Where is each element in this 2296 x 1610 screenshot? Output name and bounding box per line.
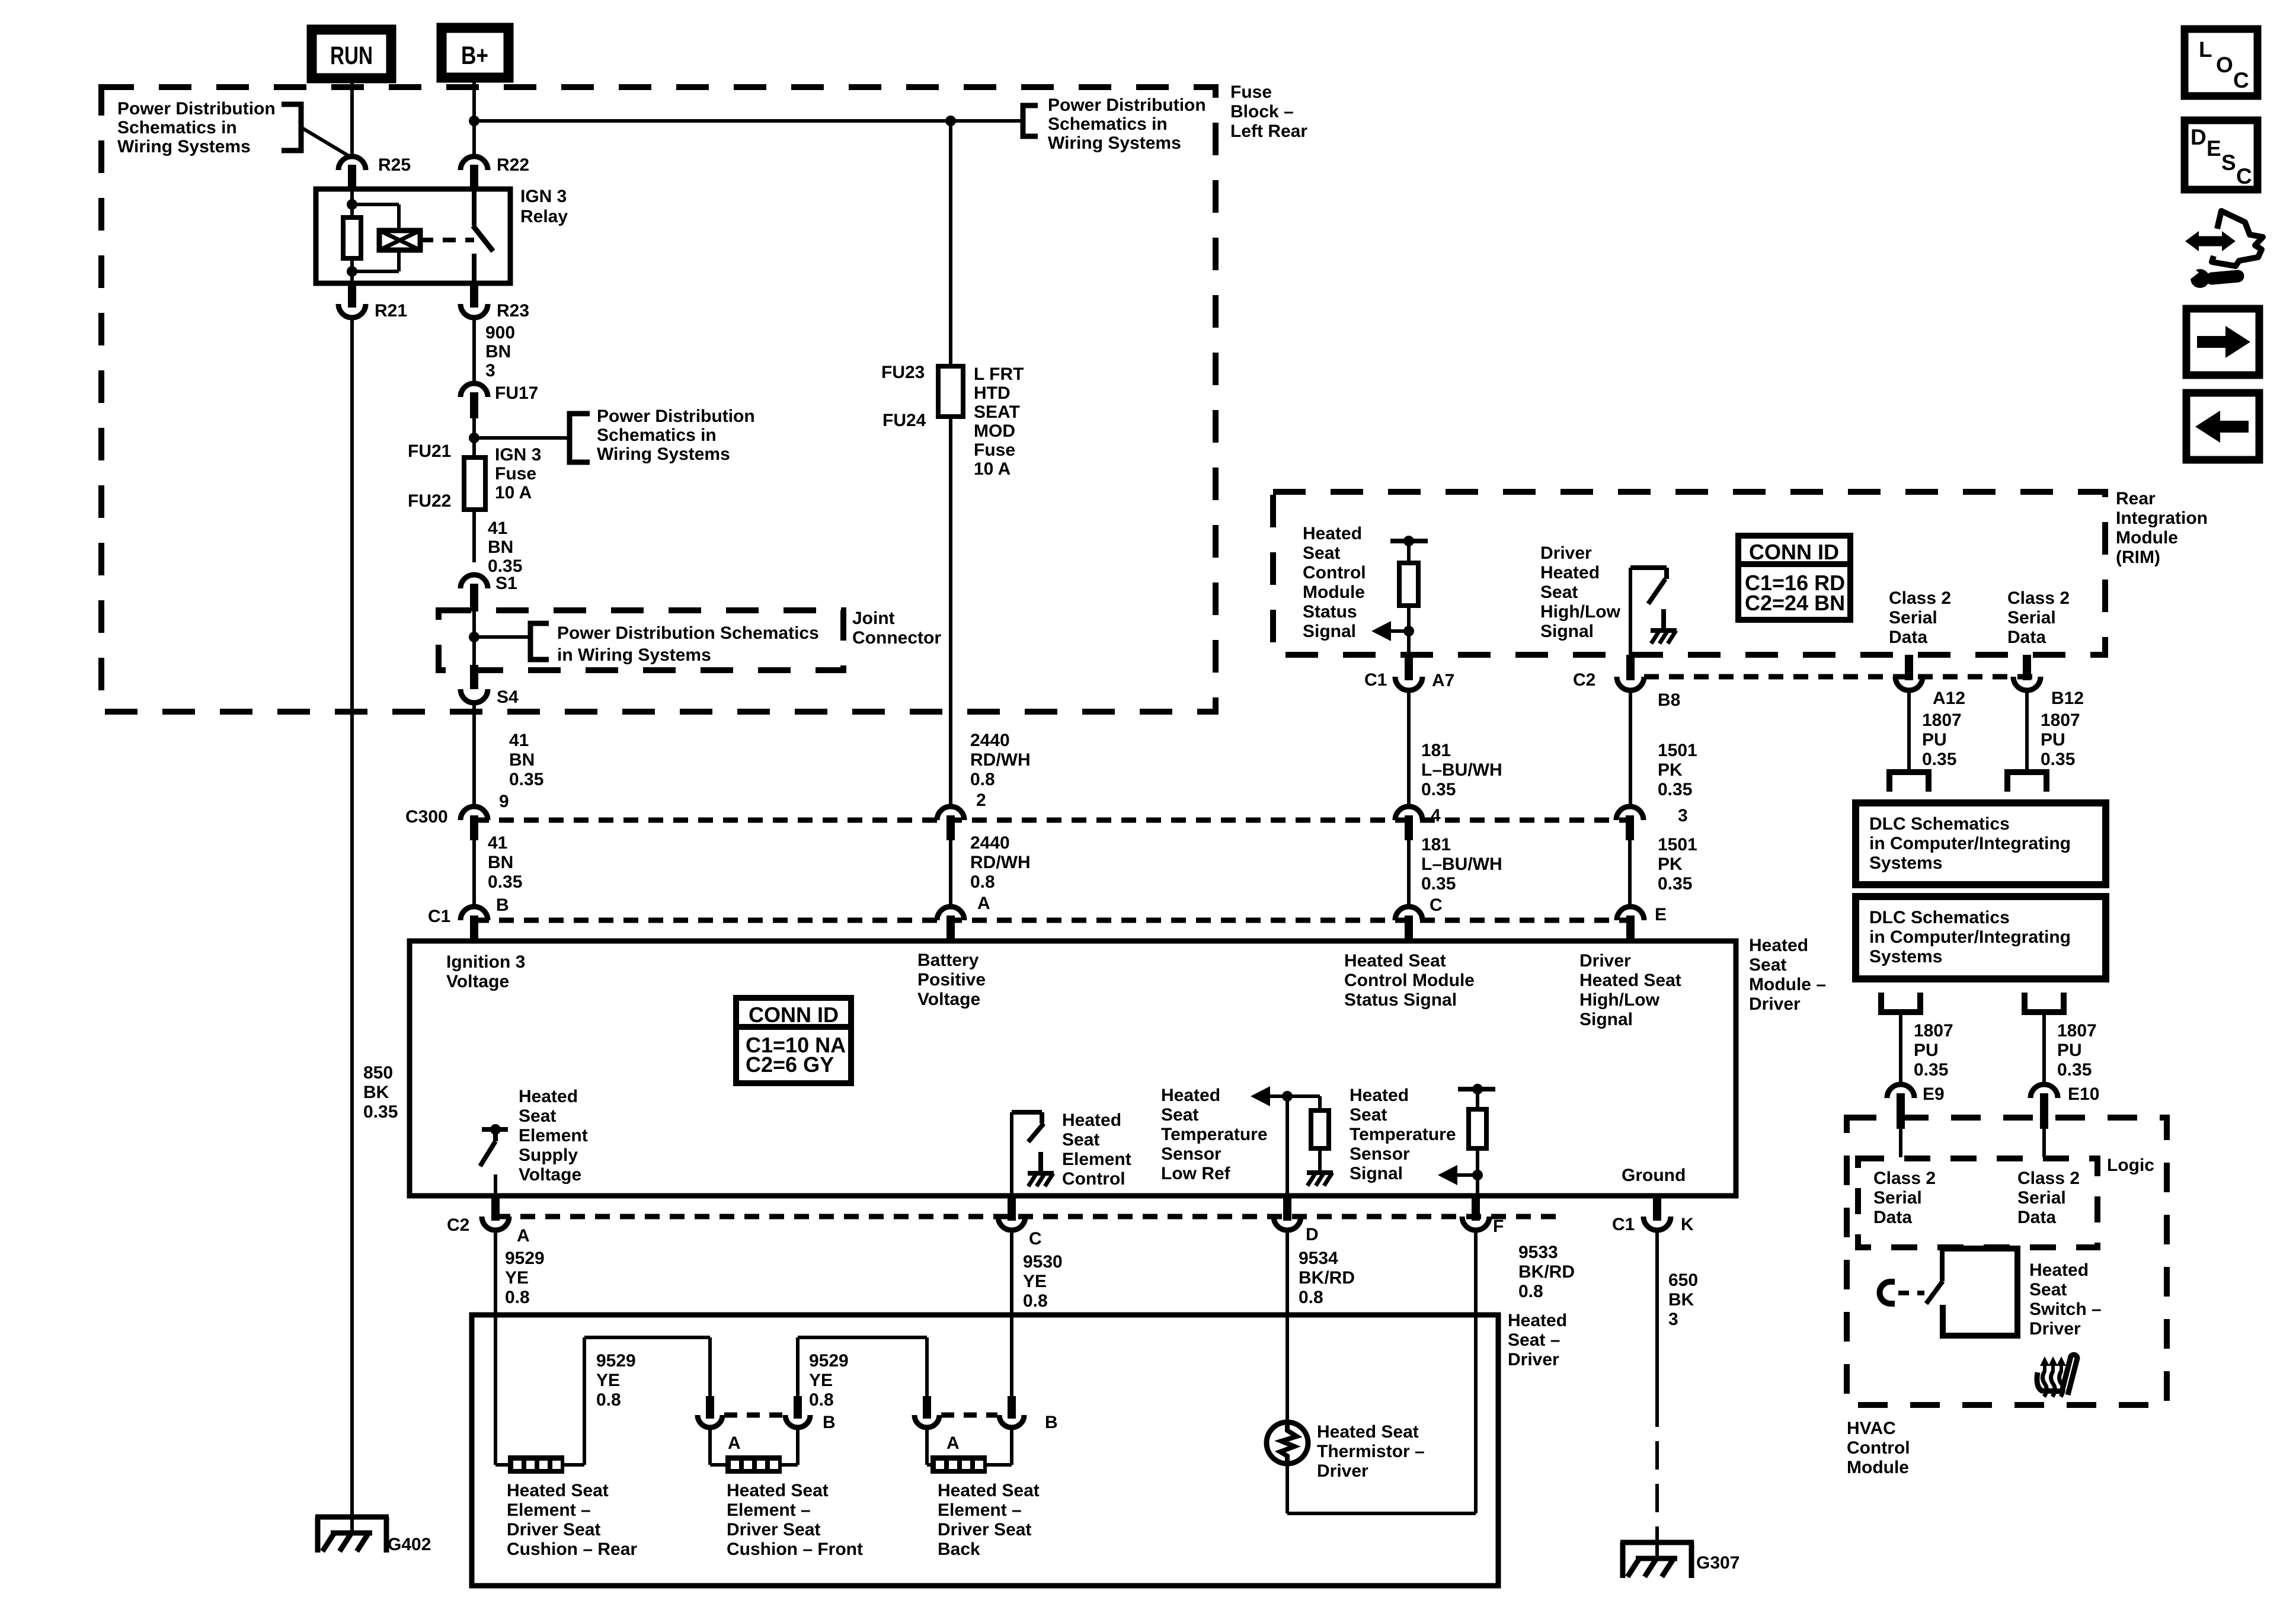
svg-text:9530: 9530 (1023, 1252, 1063, 1272)
svg-text:Heated: Heated (2029, 1260, 2089, 1280)
svg-text:Element –: Element – (938, 1500, 1022, 1520)
svg-text:PK: PK (1658, 760, 1683, 780)
logic dashed box (1858, 1158, 2097, 1247)
svg-text:10 A: 10 A (974, 459, 1011, 479)
connector R21 (338, 304, 366, 318)
svg-text:BN: BN (509, 750, 535, 770)
connector C1 pin at x=800 (461, 907, 488, 920)
wire element front B up and over to pair 2 (796, 1337, 800, 1415)
svg-text:0.8: 0.8 (596, 1390, 621, 1410)
svg-text:Sensor: Sensor (1350, 1144, 1410, 1164)
svg-text:D: D (2191, 125, 2207, 149)
wire pin C to element control (1010, 1112, 1013, 1196)
svg-text:Positive: Positive (917, 970, 986, 990)
svg-text:O: O (2216, 53, 2233, 77)
svg-text:Connector: Connector (852, 628, 941, 648)
svg-text:Heated: Heated (1540, 563, 1600, 582)
reference staple (E10) (2025, 993, 2064, 1012)
svg-text:Heated Seat: Heated Seat (507, 1481, 609, 1500)
svg-text:Class 2: Class 2 (2017, 1169, 2080, 1188)
svg-text:0.35: 0.35 (2057, 1060, 2092, 1080)
reference staple (E9) (1881, 993, 1920, 1012)
svg-text:0.8: 0.8 (970, 770, 995, 789)
svg-text:R25: R25 (378, 155, 411, 175)
svg-text:9534: 9534 (1299, 1249, 1338, 1268)
svg-text:41: 41 (509, 731, 529, 750)
node joint connector junction (469, 632, 479, 642)
wire S4 to C300 (472, 702, 476, 807)
connector C1 pin at x=2377 (1395, 907, 1422, 920)
wire inside joint connector (472, 612, 476, 668)
reference bracket (top left) (282, 104, 301, 151)
box DLC Schematics 1 (1856, 803, 2106, 885)
svg-text:G402: G402 (388, 1535, 431, 1554)
svg-text:3: 3 (1668, 1310, 1678, 1329)
wire pin C down to connector B (1010, 1230, 1013, 1396)
svg-text:Control: Control (1062, 1169, 1125, 1189)
svg-text:E9: E9 (1923, 1084, 1945, 1104)
reference bracket (power distribution, top right) (1023, 105, 1038, 136)
wire fuse to S1 (472, 510, 476, 562)
svg-text:Module: Module (1303, 582, 1365, 602)
svg-text:Control Module: Control Module (1344, 971, 1475, 990)
wire C300 to C1 (41 BN) (472, 840, 476, 908)
svg-text:9: 9 (499, 792, 509, 811)
svg-text:Integration: Integration (2116, 508, 2208, 528)
wire B8 to C300 (1501) (1629, 690, 1632, 807)
svg-text:Status: Status (1303, 602, 1357, 622)
svg-text:in Computer/Integrating: in Computer/Integrating (1869, 834, 2071, 853)
svg-text:0.8: 0.8 (1023, 1291, 1048, 1311)
svg-text:FU24: FU24 (882, 411, 926, 430)
svg-text:BN: BN (485, 342, 511, 361)
connector C2 pin C (1008, 1197, 1016, 1221)
svg-text:Data: Data (2017, 1208, 2056, 1227)
svg-text:PK: PK (1658, 854, 1683, 874)
svg-text:Ground: Ground (1622, 1166, 1686, 1185)
svg-text:1807: 1807 (1922, 710, 1962, 730)
svg-text:YE: YE (1023, 1272, 1047, 1291)
svg-text:F: F (1493, 1217, 1504, 1236)
svg-text:Power Distribution: Power Distribution (1048, 95, 1206, 115)
svg-text:Driver Seat: Driver Seat (727, 1520, 820, 1539)
svg-text:Module –: Module – (1749, 975, 1826, 994)
connector C1 pin K (1653, 1197, 1661, 1221)
svg-text:Seat: Seat (519, 1106, 556, 1126)
svg-text:RD/WH: RD/WH (970, 853, 1031, 872)
svg-text:IGN 3: IGN 3 (495, 445, 541, 465)
svg-text:C2: C2 (1573, 670, 1595, 690)
svg-text:Logic: Logic (2107, 1156, 2154, 1175)
svg-text:High/Low: High/Low (1579, 990, 1660, 1010)
svg-text:0.35: 0.35 (1658, 780, 1692, 799)
wire pin D to thermistor (1285, 1230, 1289, 1422)
svg-text:0.8: 0.8 (809, 1390, 834, 1410)
svg-text:C1: C1 (428, 907, 450, 926)
svg-text:Wiring Systems: Wiring Systems (1048, 133, 1181, 153)
connector C2 pin F (1472, 1197, 1480, 1221)
connector B (pair 2) (1008, 1396, 1016, 1419)
svg-text:Seat: Seat (1303, 543, 1340, 563)
node FU17 junction (469, 433, 479, 443)
wire thermistor bottom (1285, 1464, 1289, 1513)
svg-text:Serial: Serial (2017, 1188, 2066, 1208)
svg-text:C: C (2236, 164, 2252, 188)
svg-text:FU22: FU22 (408, 491, 451, 511)
svg-text:C2=6 GY: C2=6 GY (746, 1052, 834, 1077)
svg-text:Signal: Signal (1579, 1010, 1633, 1029)
wire A12 to DLC reference (1907, 690, 1911, 772)
svg-text:Element –: Element – (727, 1500, 811, 1520)
svg-text:0.35: 0.35 (488, 872, 522, 892)
svg-text:Schematics in: Schematics in (117, 118, 237, 137)
svg-text:0.35: 0.35 (2041, 750, 2075, 769)
wire E10 into HVAC (2042, 1129, 2046, 1157)
conn id box (RIM) (1738, 536, 1850, 620)
relay IGN 3 box (316, 189, 510, 283)
connector C300 pin 3 (1616, 806, 1643, 820)
wire B+ branch to FU23 (474, 119, 951, 123)
connector C300 pin 4 (1395, 806, 1422, 820)
connector B12 (2023, 655, 2031, 680)
svg-text:Block –: Block – (1230, 102, 1294, 121)
svg-text:Signal: Signal (1540, 622, 1594, 641)
svg-text:Back: Back (938, 1539, 980, 1559)
ground (element control) (1038, 1152, 1043, 1173)
svg-text:Thermistor –: Thermistor – (1317, 1442, 1425, 1461)
connector E10 (2030, 1084, 2058, 1098)
svg-text:181: 181 (1421, 741, 1451, 760)
svg-text:A7: A7 (1432, 671, 1454, 690)
svg-text:A: A (977, 894, 990, 913)
in-line connector dashed link (pair 2) (941, 1413, 997, 1418)
svg-text:10 A: 10 A (495, 483, 532, 502)
svg-text:Schematics in: Schematics in (597, 425, 717, 445)
connector C1 pin at x=1604 (937, 907, 964, 920)
wire pin D up (1285, 1096, 1289, 1196)
switch momentary contact curl (1880, 1282, 1895, 1304)
svg-text:Rear: Rear (2116, 489, 2156, 508)
svg-text:Control: Control (1847, 1438, 1910, 1458)
ground G307 (1620, 1540, 1694, 1545)
svg-text:L–BU/WH: L–BU/WH (1421, 760, 1502, 780)
svg-text:Status Signal: Status Signal (1344, 990, 1457, 1010)
svg-text:Class 2: Class 2 (2007, 588, 2070, 608)
svg-text:9529: 9529 (596, 1351, 636, 1371)
svg-text:Joint: Joint (852, 609, 895, 628)
svg-text:Voltage: Voltage (917, 990, 980, 1009)
svg-text:SEAT: SEAT (974, 402, 1020, 422)
svg-text:PU: PU (2057, 1041, 2082, 1060)
icon DESC box (2185, 120, 2257, 190)
icon right arrow box (2186, 309, 2259, 375)
svg-text:Heated: Heated (1062, 1110, 1121, 1130)
svg-text:Heated: Heated (1749, 936, 1808, 955)
svg-text:0.8: 0.8 (1518, 1282, 1543, 1301)
heated seat temperature sensor signal branch (1458, 1087, 1495, 1092)
svg-text:2440: 2440 (970, 833, 1010, 853)
wire pin A to element rear (494, 1230, 497, 1465)
connector E9 (1887, 1084, 1914, 1098)
svg-text:Sensor: Sensor (1161, 1144, 1221, 1164)
connector C2 B8 (1626, 655, 1635, 680)
terminal RUN (312, 30, 391, 78)
conn id box (module) (736, 998, 851, 1083)
ground (RIM switch) (1661, 609, 1666, 630)
svg-text:Fuse: Fuse (1230, 82, 1272, 102)
svg-text:L: L (2199, 37, 2212, 62)
svg-text:BK/RD: BK/RD (1299, 1268, 1355, 1288)
svg-text:Temperature: Temperature (1350, 1125, 1456, 1144)
svg-text:Heated: Heated (1303, 524, 1362, 543)
wire B12 to DLC reference (2025, 690, 2029, 772)
svg-text:A: A (517, 1226, 530, 1246)
svg-text:1501: 1501 (1658, 741, 1697, 760)
reference staple (A12) (1889, 772, 1929, 792)
svg-text:0.35: 0.35 (1914, 1060, 1948, 1080)
svg-text:Signal: Signal (1303, 622, 1356, 641)
connector A (pair 1) (706, 1396, 714, 1419)
wire thermistor return bottom (1287, 1512, 1476, 1515)
svg-text:Driver Seat: Driver Seat (938, 1520, 1031, 1539)
svg-text:Serial: Serial (1889, 608, 1937, 628)
svg-text:(RIM): (RIM) (2116, 548, 2160, 567)
svg-text:YE: YE (596, 1371, 620, 1390)
svg-text:DLC Schematics: DLC Schematics (1869, 814, 2010, 834)
svg-text:Seat: Seat (1749, 955, 1786, 975)
svg-text:Heated: Heated (1508, 1311, 1567, 1330)
svg-text:Heated: Heated (1161, 1086, 1220, 1105)
svg-text:C1: C1 (1364, 670, 1387, 690)
svg-text:0.35: 0.35 (1421, 780, 1456, 799)
svg-text:Wiring Systems: Wiring Systems (597, 444, 730, 464)
svg-text:B12: B12 (2051, 689, 2084, 708)
wire FU17 to fuse IGN3 (472, 418, 476, 457)
svg-text:DLC Schematics: DLC Schematics (1869, 908, 2010, 927)
wire A7 to C300 (181) (1407, 690, 1411, 807)
svg-text:Serial: Serial (2007, 608, 2056, 628)
svg-text:YE: YE (505, 1268, 529, 1288)
svg-text:Systems: Systems (1869, 947, 1942, 966)
module rear integration module dashed box (1273, 492, 2105, 655)
svg-text:RUN: RUN (330, 41, 373, 70)
switch fixed contact from logic (1940, 1249, 1945, 1281)
svg-text:L FRT: L FRT (974, 364, 1024, 384)
relay coil (box with X) (352, 203, 399, 206)
svg-text:0.8: 0.8 (1299, 1288, 1323, 1307)
svg-text:B8: B8 (1658, 690, 1680, 710)
node relay coil bottom (347, 266, 357, 277)
svg-text:CONN ID: CONN ID (749, 1003, 839, 1027)
svg-text:Cushion – Front: Cushion – Front (727, 1539, 863, 1559)
svg-text:Systems: Systems (1869, 853, 1942, 873)
svg-text:S4: S4 (497, 687, 519, 707)
connector A12 (1905, 655, 1913, 680)
svg-text:0.8: 0.8 (505, 1288, 530, 1307)
svg-text:Fuse: Fuse (974, 440, 1015, 460)
connector C2 pin A (491, 1197, 500, 1221)
wire C300 to C1 (181) (1407, 840, 1411, 908)
svg-text:Power Distribution Schematics: Power Distribution Schematics (557, 623, 819, 643)
wire B+ branch down to FU23 (949, 121, 952, 366)
svg-text:Serial: Serial (1873, 1188, 1922, 1208)
svg-text:YE: YE (809, 1371, 833, 1390)
svg-text:9533: 9533 (1518, 1243, 1558, 1262)
pointer line to R25 (301, 127, 350, 156)
wire element rear to connector A (584, 1336, 710, 1339)
svg-text:0.35: 0.35 (363, 1102, 398, 1122)
connector line C1 (module top) (474, 918, 1630, 923)
RIM status signal resistor branch (1390, 539, 1428, 543)
relay coil resistor (350, 189, 354, 217)
wire switch to pin A (494, 1174, 497, 1196)
svg-text:9529: 9529 (505, 1249, 545, 1268)
svg-text:C2=24 BN: C2=24 BN (1745, 591, 1845, 615)
relay switch (472, 189, 477, 226)
wire RUN to R25 (350, 78, 354, 157)
connector R25 (338, 156, 366, 170)
wire R23 to FU17 (472, 317, 476, 385)
svg-text:E10: E10 (2068, 1084, 2099, 1104)
svg-text:4: 4 (1431, 806, 1441, 825)
node B+ junction (469, 116, 479, 126)
svg-text:Low Ref: Low Ref (1161, 1164, 1231, 1183)
relay actuator dashed link (420, 238, 474, 242)
svg-text:FU17: FU17 (495, 383, 538, 403)
wire pin K stub (1655, 1196, 1659, 1197)
svg-text:HVAC: HVAC (1847, 1419, 1896, 1438)
svg-text:C1: C1 (1612, 1215, 1635, 1234)
svg-text:Heated: Heated (1350, 1086, 1409, 1105)
svg-text:Element: Element (1062, 1150, 1131, 1169)
wire pin K down (solid) (1655, 1230, 1659, 1398)
svg-text:C: C (1029, 1229, 1042, 1249)
svg-text:Temperature: Temperature (1161, 1125, 1268, 1144)
svg-text:Driver: Driver (1579, 951, 1631, 971)
svg-text:MOD: MOD (974, 421, 1015, 441)
svg-text:L–BU/WH: L–BU/WH (1421, 854, 1502, 874)
connector R23 (461, 304, 488, 318)
connector S1 (461, 575, 488, 588)
svg-text:Module: Module (1847, 1458, 1909, 1477)
svg-text:C300: C300 (405, 807, 448, 827)
svg-text:CONN ID: CONN ID (1749, 540, 1839, 564)
svg-text:BK: BK (1668, 1290, 1694, 1310)
svg-text:Data: Data (2007, 628, 2046, 647)
ground G402 (315, 1515, 389, 1520)
svg-text:Supply: Supply (519, 1145, 578, 1165)
wire DLC to E9 (1899, 1012, 1902, 1084)
switch box outline (1942, 1249, 2017, 1336)
svg-text:High/Low: High/Low (1540, 602, 1621, 622)
icon heated seat (2037, 1355, 2077, 1397)
svg-text:R23: R23 (497, 301, 529, 321)
heated seat element driver seat cushion front (708, 1427, 712, 1465)
svg-text:Heated Seat: Heated Seat (1579, 971, 1681, 990)
wire stub into G307 (1655, 1538, 1659, 1558)
reference bracket (joint connector) (530, 623, 549, 660)
connector C300 pin 2 (937, 806, 964, 820)
svg-text:1807: 1807 (2041, 710, 2080, 730)
wire B8 up to switch (1629, 568, 1632, 655)
svg-text:G307: G307 (1696, 1553, 1739, 1573)
icon car with arrow and wrench (2185, 211, 2263, 279)
module HVAC control module dashed box (1847, 1118, 2167, 1405)
svg-text:2440: 2440 (970, 731, 1010, 750)
box DLC Schematics 2 (1856, 897, 2106, 979)
wire C300 to C1 (1501) (1628, 840, 1632, 908)
svg-text:D: D (1306, 1225, 1319, 1244)
svg-text:Driver: Driver (1540, 543, 1592, 563)
thermistor heated seat driver (1267, 1422, 1308, 1464)
svg-text:Schematics in: Schematics in (1048, 114, 1168, 134)
svg-text:Seat: Seat (1540, 582, 1578, 602)
connector C300 pin 9 (461, 806, 488, 820)
svg-text:HTD: HTD (974, 383, 1011, 403)
svg-text:Module: Module (2116, 528, 2178, 548)
svg-text:Seat: Seat (2029, 1280, 2067, 1299)
svg-text:Data: Data (1873, 1208, 1912, 1227)
connector S4 (470, 665, 478, 689)
svg-text:B: B (823, 1413, 836, 1432)
wire R21 to G402 (350, 317, 354, 1535)
svg-text:FU23: FU23 (881, 363, 925, 382)
svg-text:0.8: 0.8 (970, 872, 995, 892)
connector FU17 (461, 383, 488, 397)
svg-text:Seat: Seat (1161, 1105, 1198, 1125)
svg-text:Driver Seat: Driver Seat (507, 1520, 600, 1539)
svg-text:Relay: Relay (520, 207, 568, 226)
svg-text:0.35: 0.35 (1658, 874, 1692, 894)
connector line C300 (474, 818, 1630, 823)
svg-text:Left Rear: Left Rear (1230, 121, 1307, 141)
svg-text:B+: B+ (461, 41, 488, 70)
svg-text:2: 2 (976, 790, 986, 810)
heated seat driver box (472, 1315, 1498, 1586)
svg-text:C: C (1430, 895, 1443, 915)
svg-text:41: 41 (488, 833, 507, 853)
connector B (pair 1) (794, 1396, 802, 1419)
wire DLC to E10 (2042, 1012, 2046, 1084)
svg-text:Heated Seat: Heated Seat (938, 1481, 1040, 1500)
svg-text:3: 3 (485, 361, 495, 380)
svg-text:Element –: Element – (507, 1500, 591, 1520)
wire junction to reference bracket (951, 119, 1023, 123)
svg-text:0.35: 0.35 (1922, 750, 1956, 769)
connector C1 A7 (1405, 655, 1413, 680)
svg-text:9529: 9529 (809, 1351, 849, 1371)
wire E9 into HVAC (1899, 1129, 1902, 1157)
wire FU24 to C300 (949, 417, 952, 807)
connector line C2 (module bottom) (495, 1214, 1565, 1219)
svg-text:Class 2: Class 2 (1889, 588, 1951, 608)
svg-text:RD/WH: RD/WH (970, 750, 1031, 770)
wire B+ to R22 (472, 78, 476, 157)
node relay coil top (347, 199, 357, 210)
svg-text:Class 2: Class 2 (1873, 1169, 1936, 1188)
svg-text:C2: C2 (447, 1215, 469, 1235)
icon left arrow box (2186, 393, 2259, 460)
svg-text:BN: BN (488, 537, 513, 557)
svg-text:Fuse: Fuse (495, 464, 536, 484)
fuse block left rear dashed box (101, 87, 1216, 712)
svg-text:0.35: 0.35 (1421, 874, 1456, 894)
switch heated seat element supply voltage (482, 1127, 508, 1132)
icon LOC box (2185, 29, 2257, 96)
reference bracket (FU17) (570, 414, 590, 462)
svg-text:B: B (496, 895, 509, 915)
svg-text:PU: PU (1922, 730, 1947, 750)
